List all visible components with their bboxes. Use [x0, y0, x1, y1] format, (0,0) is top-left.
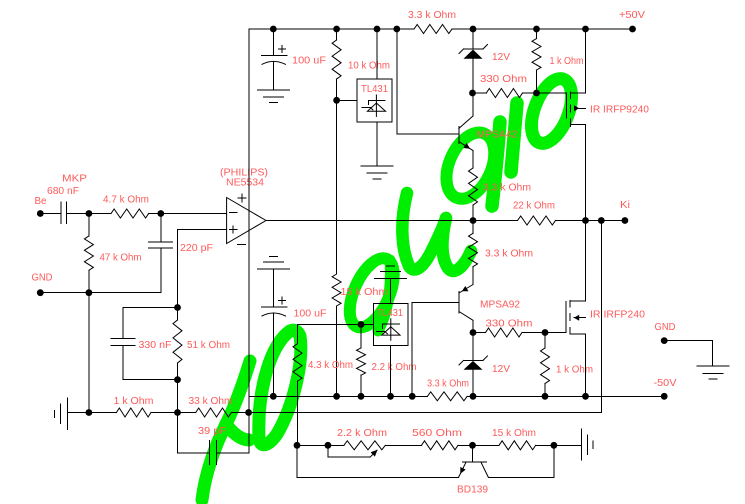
- svg-text:100 uF: 100 uF: [292, 56, 326, 67]
- wire 10k node down: [336, 100, 338, 274]
- wire to op-amp non-inverting input: [178, 229, 227, 231]
- watermark u left: [402, 193, 446, 270]
- resistor 10 k Ohm: [332, 40, 341, 79]
- node +input/51k/330nF: [174, 304, 181, 311]
- wire: [328, 456, 370, 458]
- svg-text:10 k Ohm: 10 k Ohm: [348, 61, 390, 72]
- wire feedback horizontal: [249, 412, 602, 414]
- ground (right): [697, 365, 729, 367]
- wire: [151, 412, 196, 414]
- wire: [297, 325, 299, 344]
- wire: [297, 476, 459, 478]
- svg-text:47 k Ohm: 47 k Ohm: [100, 253, 142, 264]
- wire: [601, 220, 625, 222]
- wire: [123, 379, 178, 381]
- wire to op-amp inverting input: [161, 213, 227, 215]
- node rail/source lower: [582, 393, 589, 400]
- svg-text:680 nF: 680 nF: [47, 186, 79, 197]
- ground (below TL431 upper): [361, 165, 393, 167]
- svg-text:22 k Ohm: 22 k Ohm: [513, 201, 555, 212]
- wire: [272, 29, 274, 55]
- wire top rail left section: [249, 28, 397, 30]
- wire: [472, 93, 474, 116]
- wire: [67, 412, 116, 414]
- op-amp U2 NE5534: [227, 198, 266, 244]
- wire ground row: [40, 292, 161, 294]
- wire: [473, 92, 487, 94]
- wire feedback vertical: [600, 221, 602, 413]
- wire gate IRFP9240: [537, 92, 567, 94]
- svg-text:1 k Ohm: 1 k Ohm: [556, 365, 593, 376]
- watermark u right: [442, 218, 471, 271]
- wire TL431 cathode to rail: [376, 29, 378, 79]
- svg-text:15 k Ohm: 15 k Ohm: [492, 428, 536, 439]
- resistor 330 Ohm upper: [486, 89, 522, 98]
- terminal Be (input): [37, 210, 44, 217]
- resistor 1 k Ohm feedback: [116, 408, 151, 417]
- node input/47k: [86, 210, 93, 217]
- wire: [536, 444, 554, 446]
- wire: [177, 413, 179, 454]
- wire: [160, 248, 162, 293]
- wire 4.3k to servo: [297, 381, 299, 445]
- wire: [472, 29, 474, 49]
- node zener/330/collector: [469, 90, 476, 97]
- ground (left, rotated): [66, 398, 68, 430]
- transistor Q1 MPSA42: [458, 127, 460, 144]
- wire: [272, 269, 274, 307]
- ground (servo, rotated): [580, 429, 582, 460]
- resistor 1 k Ohm upper: [532, 39, 541, 70]
- resistor 4.3 k Ohm: [293, 344, 302, 382]
- wire: [472, 267, 474, 285]
- wire: [177, 230, 179, 308]
- wire: [472, 370, 474, 397]
- wire: [177, 380, 179, 413]
- svg-text:51 k Ohm: 51 k Ohm: [187, 340, 230, 351]
- node rail/source: [582, 26, 589, 33]
- svg-text:3.3 k Ohm: 3.3 k Ohm: [408, 10, 456, 21]
- wire: [556, 220, 586, 222]
- svg-text:330 nF: 330 nF: [139, 340, 172, 351]
- wire: [88, 270, 90, 292]
- resistor 4.7 k Ohm: [111, 209, 149, 218]
- wire: [472, 151, 474, 169]
- svg-text:GND: GND: [655, 322, 676, 333]
- svg-text:15 k Ohm: 15 k Ohm: [341, 287, 388, 298]
- wire: [522, 332, 545, 334]
- resistor 2.2 k Ohm: [357, 348, 366, 375]
- wire: [336, 306, 338, 396]
- wire: [544, 333, 546, 349]
- wire op-amp supply vertical: [248, 29, 250, 413]
- node rail/base feed: [393, 26, 400, 33]
- node 33k/39pF/feedback: [245, 409, 252, 416]
- wire source IRFP9240 to rail: [585, 29, 587, 93]
- resistor 51 k Ohm: [173, 320, 182, 363]
- svg-text:MPSA42: MPSA42: [477, 130, 518, 141]
- resistor 1 k Ohm lower: [541, 348, 550, 384]
- resistor 15 k Ohm servo: [499, 441, 536, 450]
- node rail/TL431: [374, 26, 381, 33]
- watermark K spine: [202, 361, 250, 500]
- svg-text:100 uF: 100 uF: [294, 309, 327, 320]
- node rail/zener lower: [470, 393, 477, 400]
- svg-text:+50V: +50V: [619, 10, 646, 21]
- svg-text:4.3 k Ohm: 4.3 k Ohm: [308, 360, 353, 371]
- terminal +50V: [629, 26, 636, 33]
- wire: [122, 346, 124, 380]
- wire: [385, 444, 421, 446]
- wire: [553, 445, 555, 477]
- svg-text:TL431: TL431: [361, 84, 388, 95]
- node rail/1k: [533, 26, 540, 33]
- resistor 33 k Ohm: [196, 408, 232, 417]
- wire: [712, 341, 714, 366]
- wire: [458, 444, 499, 446]
- node divider tap: [174, 409, 181, 416]
- wire source IRFP240 to -50V: [585, 334, 587, 396]
- node drains/output: [582, 217, 589, 224]
- terminal -50V: [661, 393, 668, 400]
- wire: [272, 62, 274, 90]
- IC U3 TL431 lower box: [374, 304, 409, 346]
- wire: [473, 220, 518, 222]
- resistor 15 k Ohm: [332, 274, 341, 306]
- wire: [327, 445, 329, 457]
- resistor 560 Ohm: [422, 441, 459, 450]
- wire drain IRFP240 to output: [585, 221, 587, 302]
- wire: [177, 363, 179, 380]
- wire: [336, 79, 338, 100]
- svg-text:3.3 k Ohm: 3.3 k Ohm: [483, 183, 531, 194]
- svg-text:MPSA92: MPSA92: [480, 300, 520, 311]
- wire: [472, 59, 474, 93]
- wire: [177, 308, 179, 321]
- wire gate IRFP240: [545, 332, 566, 334]
- svg-text:220 pF: 220 pF: [180, 243, 213, 254]
- resistor 3.3 k Ohm (rail dropper): [414, 25, 452, 34]
- resistor 2.2 k Ohm trimpot: [344, 441, 385, 450]
- svg-text:MKP: MKP: [62, 174, 88, 185]
- node rail/zener: [470, 26, 477, 33]
- wire: [536, 70, 538, 93]
- watermark a bowl: [341, 252, 403, 334]
- TL431 lower symbol: [390, 319, 392, 340]
- wire: [360, 375, 362, 396]
- svg-text:NE5534: NE5534: [226, 178, 265, 189]
- node 4.7k/220pF: [157, 210, 164, 217]
- svg-text:560 Ohm: 560 Ohm: [412, 428, 462, 439]
- ground (below 100uF upper): [257, 89, 289, 91]
- wire: [523, 92, 537, 94]
- svg-text:-50V: -50V: [654, 378, 678, 389]
- wire: [248, 413, 250, 454]
- wire: [296, 445, 298, 477]
- ground (above 100uF lower): [257, 268, 289, 270]
- wire: [472, 205, 474, 221]
- node collector/zener/330 lower: [470, 329, 477, 336]
- node output/3.3k/22k: [470, 217, 477, 224]
- svg-text:2.2 k Ohm: 2.2 k Ohm: [337, 428, 387, 439]
- wire: [178, 452, 210, 454]
- wire: [89, 213, 111, 215]
- svg-text:330 Ohm: 330 Ohm: [486, 319, 533, 330]
- wire: [473, 332, 486, 334]
- wire: [397, 28, 414, 30]
- wire MPSA92 base feed horizontal: [412, 301, 459, 303]
- svg-text:IR IRFP9240: IR IRFP9240: [590, 105, 650, 116]
- node 560/15k/base: [469, 442, 476, 449]
- node 51k/330nF bottom: [174, 376, 181, 383]
- watermark o: [523, 73, 579, 149]
- node rail/100uF lower: [270, 393, 277, 400]
- svg-text:GND: GND: [32, 273, 53, 284]
- wire: [472, 320, 474, 332]
- wire: [122, 308, 124, 339]
- node rail/1k lower: [542, 393, 549, 400]
- node servo left: [294, 442, 301, 449]
- wire: [472, 333, 474, 361]
- svg-text:12V: 12V: [492, 364, 510, 375]
- transistor Q2 MPSA92: [458, 292, 460, 313]
- wire: [336, 29, 338, 40]
- wire: [472, 445, 474, 462]
- node rail/TL431 lower: [387, 393, 394, 400]
- resistor 47 k Ohm: [84, 236, 93, 270]
- node rail/2.2k: [358, 393, 365, 400]
- svg-text:3.3 k Ohm: 3.3 k Ohm: [485, 249, 533, 260]
- terminal GND right: [661, 337, 668, 344]
- ground (above TL431 lower): [375, 278, 407, 280]
- svg-text:1 k Ohm: 1 k Ohm: [550, 56, 584, 67]
- resistor 330 Ohm lower: [486, 328, 523, 337]
- wire MPSA92 base feed vertical: [411, 302, 413, 396]
- svg-text:Ki: Ki: [620, 200, 630, 211]
- node 15k/collector: [551, 442, 558, 449]
- watermark a tail: [378, 260, 390, 331]
- resistor 3.3 k Ohm (MPSA92 emitter): [469, 233, 478, 266]
- node output/feedback: [598, 217, 605, 224]
- wire: [390, 279, 392, 304]
- TL431 upper symbol: [375, 95, 377, 116]
- wire: [452, 28, 473, 30]
- svg-text:330 Ohm: 330 Ohm: [480, 74, 527, 85]
- resistor 22 k Ohm: [518, 216, 556, 225]
- wire: [488, 476, 554, 478]
- node 2.2k/TL431 ref: [358, 321, 365, 328]
- node 330/1k/gate lower: [542, 329, 549, 336]
- wire: [123, 307, 178, 309]
- node rail/15k: [333, 393, 340, 400]
- svg-text:Be: Be: [35, 196, 48, 207]
- svg-text:4.7 k Ohm: 4.7 k Ohm: [103, 195, 149, 206]
- watermark i: [511, 103, 517, 172]
- node 330/1k/gate: [533, 90, 540, 97]
- wire top rail right section (+50V): [473, 28, 633, 30]
- svg-text:TL431: TL431: [377, 308, 403, 319]
- svg-text:33 k Ohm: 33 k Ohm: [189, 396, 233, 407]
- wire: [160, 214, 162, 242]
- svg-text:IR IRFP240: IR IRFP240: [590, 310, 646, 321]
- svg-text:3.3 k Ohm: 3.3 k Ohm: [427, 379, 469, 390]
- watermark D bowl: [259, 330, 301, 444]
- node rail/10k: [333, 26, 340, 33]
- svg-text:39 pF: 39 pF: [198, 426, 226, 437]
- node rail/100uF: [270, 26, 277, 33]
- resistor 3.3 k Ohm (MPSA42 emitter): [469, 168, 478, 205]
- node 1k/GND drop: [86, 409, 93, 416]
- wire: [67, 213, 89, 215]
- node 10k/TL431: [333, 97, 340, 104]
- svg-text:1 k Ohm: 1 k Ohm: [114, 396, 154, 407]
- wire: [586, 220, 602, 222]
- wire: [272, 313, 274, 396]
- wire op-amp output: [266, 220, 473, 222]
- terminal GND left: [37, 289, 44, 296]
- resistor 3.3 k Ohm (neg rail dropper): [427, 392, 467, 401]
- wire drain IRFP9240 to output: [585, 125, 587, 221]
- svg-text:12V: 12V: [492, 52, 510, 63]
- terminal Ki (output): [622, 217, 629, 224]
- wire: [88, 214, 90, 237]
- wire: [231, 412, 248, 414]
- node 47k/GND: [86, 289, 93, 296]
- watermark K leg: [226, 424, 249, 440]
- wire: [554, 444, 581, 446]
- svg-text:2.2 k Ohm: 2.2 k Ohm: [372, 362, 417, 373]
- wire: [536, 29, 538, 39]
- wire -50V rail: [467, 395, 664, 397]
- wire: [664, 340, 712, 342]
- IC U1 TL431 upper box: [357, 79, 392, 122]
- wire: [360, 325, 362, 348]
- wire: [40, 213, 61, 215]
- wire GND node to feedback row: [88, 293, 90, 413]
- wire MPSA42 base feed vertical: [396, 29, 398, 134]
- wire: [149, 213, 161, 215]
- wire: [472, 221, 474, 234]
- watermark d bowl: [437, 125, 504, 206]
- watermark d stem: [492, 122, 500, 206]
- wire: [297, 444, 344, 446]
- node trimpot wiper tie: [325, 442, 332, 449]
- wire: [544, 384, 546, 397]
- wire regulated negative rail: [249, 395, 427, 397]
- wire TL431 anode to ground: [376, 122, 378, 166]
- wire TL431 lower ref row: [298, 324, 374, 326]
- wire to TL431 ref: [337, 99, 357, 101]
- node rail/MPSA92 base feed: [409, 393, 416, 400]
- svg-text:BD139: BD139: [457, 485, 488, 496]
- wire MPSA42 base feed horizontal: [397, 133, 459, 135]
- wire: [216, 452, 249, 454]
- wire: [390, 346, 392, 397]
